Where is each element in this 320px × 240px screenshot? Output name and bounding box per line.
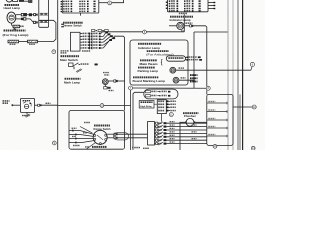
labels below matrix [132, 147, 134, 149]
wire vertical mid [193, 32, 195, 88]
node 10 on feed [100, 104, 104, 108]
label wire size [61, 24, 64, 25]
relay ground [26, 112, 28, 114]
wire to trunk riser [114, 36, 125, 110]
wire parking lamp to bus [176, 69, 251, 71]
node 13 bottom [213, 144, 217, 148]
label fog lamp (japanese) [4, 30, 6, 32]
label flasher (japanese) [183, 112, 185, 114]
wire label box to relay block [154, 103, 157, 105]
connector below mark lamp [104, 85, 106, 87]
wire vertical trunk [57, 0, 59, 150]
connector pair lower [34, 21, 36, 23]
wire node8 to box B [206, 90, 208, 94]
dimmer switch connector block [62, 0, 99, 13]
switch matrix rows [155, 122, 156, 124]
label main beam (japanese) [140, 59, 142, 61]
wire horizontal feed [58, 105, 100, 107]
label dimmer switch 2 (japanese) [94, 125, 96, 127]
wire [24, 0, 29, 2]
label above parking wire [179, 67, 181, 68]
box B pin rows [207, 102, 227, 104]
connector oval on rotary wires [114, 133, 129, 140]
dimmer switch contacts [63, 1, 64, 2]
wire light switch row1 to indicator box [101, 32, 185, 34]
wire rotary left 4 [69, 141, 94, 143]
label board marking lamp (japanese) [133, 76, 135, 78]
flasher pins [185, 121, 187, 123]
connector (filled) on lower wire [21, 18, 23, 20]
wire relay to matrix [161, 114, 163, 122]
light switch contact matrix [80, 33, 82, 35]
wire relay left [13, 104, 20, 106]
wire node7 down [130, 90, 132, 150]
partial component marks [19, 0, 24, 2]
wire fog connector to junction [38, 20, 56, 41]
label on connector [20, 26, 22, 28]
node on trunk lower [52, 141, 56, 145]
wire capsule to trunk [133, 92, 144, 150]
dimmer switch stub [80, 13, 82, 16]
connector pair [34, 14, 36, 16]
wire label pair upper [40, 12, 48, 14]
fog lamp connector 2 (hatched) [28, 40, 38, 43]
ground aux switch [73, 67, 75, 70]
main beam wires right [186, 56, 187, 58]
connector (filled) [29, 13, 32, 16]
lamp cluster box [130, 40, 188, 85]
label under relay [22, 115, 24, 116]
indicator lamp [177, 22, 184, 29]
node 5 mid [143, 30, 147, 34]
relay connector block [157, 100, 166, 114]
connector box B [207, 94, 233, 145]
wire vertical bus line 2 (gray) [232, 0, 234, 150]
ground stub [14, 28, 16, 29]
head lamp H1 [7, 12, 16, 23]
label indicator lamp cluster (japanese) [138, 43, 140, 45]
wire relay right [35, 104, 38, 106]
flasher unit [186, 118, 194, 126]
node 4 on trunk [52, 50, 56, 54]
wire flasher left [180, 122, 185, 150]
label relay (japanese) [3, 100, 5, 102]
label beside trunk [61, 50, 63, 51]
light switch matrix seam [89, 33, 91, 50]
label light switch (japanese) [61, 55, 63, 57]
label wire size above lamp [103, 72, 105, 73]
relay RL1 [20, 98, 34, 112]
indicator block contacts [169, 0, 171, 2]
indicator block right wires [208, 2, 215, 4]
node 12 [252, 105, 256, 109]
wire node7 to node8 [133, 87, 207, 89]
node 11 [169, 113, 173, 117]
fog lamp connector 1 (hatched) [8, 40, 19, 43]
partial connector box [13, 0, 18, 1]
node 6 right [250, 62, 254, 66]
connector relay [38, 104, 40, 106]
wire vertical bus line 3 [237, 0, 239, 150]
head lamp H1 inner bulb [9, 15, 14, 20]
high relay label box [139, 101, 154, 108]
label rotary switch bottom (japanese) [92, 146, 94, 148]
wire label pair lower [40, 20, 48, 22]
label under light switch matrix [82, 50, 84, 51]
label above indicator wire [185, 22, 187, 24]
board marking lamp [173, 77, 179, 83]
wire rotary left 2 [69, 135, 93, 137]
parking lamp [170, 67, 176, 73]
wire mark lamp down [118, 80, 125, 82]
wire dimmer to top [99, 2, 108, 4]
switch matrix housing [148, 122, 155, 145]
wire [27, 14, 29, 16]
wire riser to indicator block [183, 14, 185, 32]
label head lamp (japanese) [5, 4, 7, 6]
wire relay to trunk [42, 104, 58, 106]
wire indicator lamp right [184, 25, 190, 27]
wire box B to node 12 [233, 106, 252, 108]
wire rotary left 1 [69, 131, 94, 135]
label below indicator lamp [181, 30, 183, 32]
wire board marking lamp right [179, 79, 195, 81]
node 14 bottom right [251, 146, 255, 150]
main beam capsule [166, 56, 185, 61]
wire vertical bus line 4 [242, 0, 244, 150]
wire rotary right 2 [107, 137, 114, 139]
indicator block left pins [166, 2, 168, 3]
rotary dimmer switch [93, 130, 107, 144]
labels under fog connectors [10, 44, 12, 45]
rotary switch contacts [94, 134, 96, 136]
aux switch symbol [69, 63, 74, 67]
fuse row 1 [146, 91, 151, 93]
wire indicator to box B [193, 26, 207, 86]
partial lamp (cut off at top) [6, 0, 12, 2]
wire rotary bottom-left diagonal [86, 143, 95, 150]
connector on upper wire [21, 13, 23, 16]
node 8 right [206, 86, 210, 90]
mark lamp [102, 79, 108, 85]
partial connector [29, 0, 32, 3]
label indicator lamp (japanese) [170, 16, 172, 18]
wire between fog connectors [19, 41, 28, 43]
relay pins and labels [158, 101, 160, 103]
fuse capsule [144, 89, 178, 99]
main beam bracket [161, 59, 164, 65]
rotary switch box [69, 111, 125, 150]
node 7 left [129, 86, 133, 90]
light switch housing [71, 32, 81, 51]
wire [32, 14, 34, 16]
wire vertical bus line 1 (gray) [227, 0, 229, 150]
label for articulated (japanese) [147, 50, 149, 52]
connector row above matrix [92, 30, 95, 32]
connector mark lamp [114, 80, 116, 82]
fuse row 2 [146, 95, 151, 97]
label mark lamp (japanese) [65, 78, 67, 80]
hatched connector [13, 25, 20, 28]
wire lamp to ground connector [10, 23, 12, 25]
relay coil [24, 104, 28, 108]
junction box [39, 0, 49, 27]
wire bend to lower connector [26, 19, 34, 23]
label below mark lamp [109, 90, 111, 91]
wire horizontal top right [194, 31, 228, 33]
wire head lamp upper [16, 14, 21, 16]
wire indicator lamp left [169, 25, 177, 27]
wire mark lamp right [108, 80, 114, 82]
label vertical wire [190, 74, 192, 76]
wire rotary right 1 [107, 133, 114, 135]
wire rotary top-left diagonal [80, 127, 92, 133]
label on aux wire [81, 63, 83, 65]
node 3 top [108, 1, 112, 5]
wire rotary left 3 [69, 138, 93, 140]
connector indicator [190, 25, 192, 27]
wires light switch to harness [101, 35, 104, 37]
dimmer switch left pins [61, 1, 63, 2]
label under indicator block [179, 13, 181, 15]
labels near rotary wires [84, 122, 86, 123]
wire head lamp lower [16, 18, 21, 20]
relay contacts [23, 100, 25, 101]
indicator connector block [168, 0, 209, 12]
label dimmer switch (japanese) [63, 22, 65, 24]
wire jog to node [251, 67, 252, 70]
label parking lamp (japanese) [138, 67, 140, 69]
wire vertical bus line 5 (lower) [239, 94, 241, 150]
wire flasher right [195, 121, 207, 123]
